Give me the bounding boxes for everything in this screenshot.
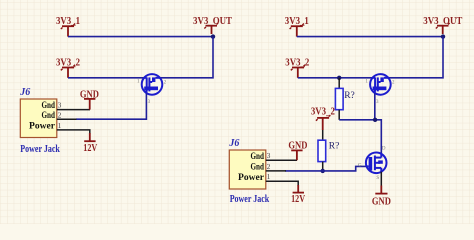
svg-text:Gnd: Gnd bbox=[251, 152, 265, 162]
junction R2 bottom on gate net bbox=[321, 169, 325, 173]
svg-text:12V: 12V bbox=[291, 194, 306, 205]
svg-text:12V: 12V bbox=[83, 143, 98, 154]
pin 2 of J6 (right) bbox=[266, 170, 286, 172]
wire Q1 source down to J6 pin 2 (left) bbox=[76, 93, 146, 119]
mosfet Q3 (right bottom N-MOSFET) bbox=[366, 153, 387, 174]
pin 3 of J6 (left) bbox=[57, 109, 90, 111]
pin 1 of J6 (right) bbox=[266, 181, 298, 186]
svg-text:Gnd: Gnd bbox=[42, 111, 56, 121]
wire 3V3_2 to Q2 gate (right) bbox=[298, 77, 373, 79]
mosfet Q2 (right top P-MOSFET) bbox=[370, 74, 391, 95]
power port 12V (right jack) bbox=[291, 185, 306, 205]
svg-text:G: G bbox=[358, 164, 362, 169]
svg-text:Power Jack: Power Jack bbox=[230, 194, 270, 205]
svg-text:R?: R? bbox=[329, 142, 340, 152]
svg-text:1: 1 bbox=[58, 121, 62, 130]
wire 3V3_OUT vertical down to Q1 drain (left) bbox=[160, 37, 213, 78]
wire Q2 source vertical bbox=[374, 93, 376, 120]
svg-text:Power Jack: Power Jack bbox=[20, 144, 60, 155]
svg-text:J6: J6 bbox=[228, 138, 239, 149]
power port 3V3_OUT (right) bbox=[423, 16, 462, 34]
power port 3V3_2 (left) bbox=[56, 57, 80, 77]
power port 3V3_OUT (left) bbox=[193, 16, 232, 34]
svg-text:3: 3 bbox=[267, 151, 271, 160]
power port GND (left jack) bbox=[80, 89, 99, 109]
power port GND (right jack) bbox=[288, 140, 307, 160]
wire J6 pin2 to Q3 gate (right) bbox=[285, 166, 367, 171]
wire Q3 source to GND bbox=[380, 172, 382, 186]
svg-text:3: 3 bbox=[58, 101, 62, 110]
junction at 3V3_OUT drop (left) bbox=[211, 34, 215, 38]
svg-text:2: 2 bbox=[267, 162, 271, 171]
svg-text:Gnd: Gnd bbox=[42, 101, 56, 111]
svg-text:Power: Power bbox=[238, 173, 265, 183]
power port 12V (left jack) bbox=[83, 133, 98, 154]
junction at 3V3_OUT drop (right) bbox=[441, 34, 445, 38]
power port 3V3_1 (left) bbox=[56, 16, 80, 37]
svg-text:3V3_2: 3V3_2 bbox=[311, 106, 335, 117]
svg-text:Gnd: Gnd bbox=[251, 163, 265, 173]
mosfet Q1 (left P-MOSFET) bbox=[142, 74, 163, 95]
svg-text:D: D bbox=[382, 146, 386, 151]
wire 3V3_OUT vertical down to Q2 drain (right) bbox=[388, 37, 443, 78]
connector J6 (left power jack) bbox=[19, 87, 60, 155]
wire net 3V3_1 horizontal (right) bbox=[297, 36, 443, 38]
svg-text:R?: R? bbox=[344, 91, 355, 101]
power port 3V3_1 (right) bbox=[285, 16, 309, 37]
connector J6 (right power jack) bbox=[228, 138, 269, 205]
pin 1 of J6 (left) bbox=[57, 130, 90, 134]
svg-text:Power: Power bbox=[29, 122, 56, 132]
pin 3 of J6 (right) bbox=[266, 159, 297, 161]
svg-text:2: 2 bbox=[58, 110, 62, 119]
wire net 3V3_1 horizontal bbox=[68, 36, 213, 38]
svg-text:1: 1 bbox=[267, 172, 271, 181]
junction at R1 tap bbox=[337, 76, 341, 80]
pin 2 of J6 (left) bbox=[57, 118, 77, 120]
power port 3V3_2 (right lower) bbox=[311, 106, 335, 130]
resistor R2 (R?) bbox=[318, 130, 339, 171]
junction Q2 source on node bbox=[373, 118, 377, 122]
wire Q2 source / R1 to Q3 drain bbox=[339, 120, 381, 154]
svg-text:J6: J6 bbox=[19, 87, 30, 98]
power port GND (bottom right) bbox=[372, 186, 391, 208]
svg-text:GND: GND bbox=[372, 197, 391, 208]
power port 3V3_2 (right top) bbox=[285, 57, 309, 77]
wire 3V3_2 to Q1 gate (left) bbox=[68, 77, 144, 79]
resistor R1 (R?) bbox=[335, 78, 354, 120]
svg-text:S: S bbox=[376, 176, 379, 181]
